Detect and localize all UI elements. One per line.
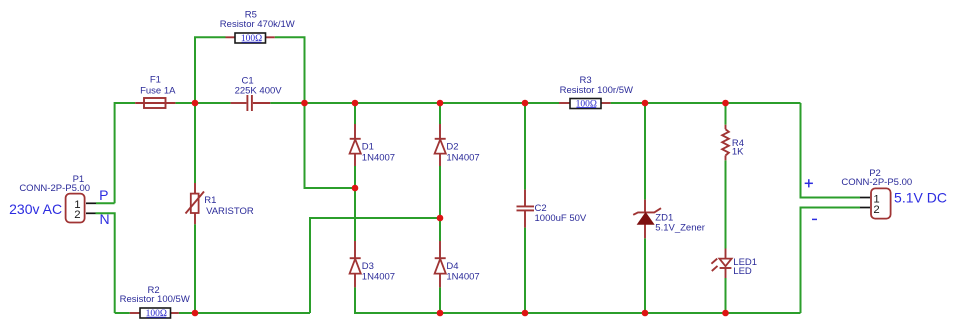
LED LED1 [711,249,757,279]
connector P1 [19,174,96,222]
svg-text:D1: D1 [362,141,374,152]
junction node C2 top at top rail [522,100,529,107]
junction node D2 cathode at top rail [437,100,444,107]
junction node C2 bottom at bottom rail [522,310,529,317]
wire: bottom-left rail (N side through R2 to bridge AC2 riser) [115,312,310,314]
diode D4 [435,241,480,287]
wire: bridge AC2 riser and horizontal to D2/D4 midpoint [310,218,440,313]
wire: R4/LED column [725,103,727,313]
junction node at fuse output / R5 / C1 / varistor [192,100,199,107]
junction node R4 top at top rail [722,100,729,107]
fuse F1 [135,74,176,108]
junction node LED bottom at bottom rail [722,310,729,317]
connector P2 [841,168,912,218]
node label - [812,218,817,220]
svg-text:N: N [99,211,109,227]
wire: D1/D3 bridge left column [355,103,440,313]
wire: C2 column [524,103,526,313]
svg-text:2: 2 [74,209,80,221]
wire: bottom-right DC negative rail [440,312,801,314]
wire: top rail from P1 P-side corner to P2 corner [115,103,801,203]
diode D2 [435,124,480,166]
svg-text:1N4007: 1N4007 [446,272,479,283]
junction node ZD1 top at top rail [642,100,649,107]
svg-text:Resistor 100/5W: Resistor 100/5W [120,294,190,305]
svg-text:LED: LED [733,266,752,277]
resistor R3 [559,75,633,110]
svg-text:5.1V DC: 5.1V DC [894,189,947,205]
svg-text:R1: R1 [204,195,216,206]
diode D3 [350,241,395,287]
svg-text:CONN-2P-P5.00: CONN-2P-P5.00 [841,177,912,188]
resistor R2 [120,285,190,319]
wire: P1 pin1 to corner [96,202,115,204]
svg-text:2: 2 [873,204,879,216]
wire: C1 node down to D1/D3 midpoint [305,103,356,188]
junction node ZD1 bottom at bottom rail [642,310,649,317]
node label + [805,179,813,187]
wire: P2 pin1 from top rail [801,103,861,198]
svg-text:Fuse 1A: Fuse 1A [140,85,176,96]
wire: ZD1 column [644,103,646,313]
wire: R5 parallel loop [195,37,305,103]
capacitor C2 (electrolytic) [517,190,587,228]
zener diode ZD1 [633,200,705,239]
svg-text:1K: 1K [732,147,744,158]
svg-text:1N4007: 1N4007 [446,153,479,164]
resistor R4 (zigzag) [722,125,744,161]
svg-text:1N4007: 1N4007 [362,272,395,283]
svg-text:5.1V_Zener: 5.1V_Zener [655,223,705,234]
svg-text:Resistor 100r/5W: Resistor 100r/5W [560,85,633,96]
varistor R1 [186,183,254,224]
svg-text:230v AC: 230v AC [9,201,62,217]
wire: P2 pin2 down to bottom rail [801,208,861,314]
wire: P1 pin2 down to bottom-left rail [96,213,115,313]
capacitor C1 [231,76,283,111]
svg-text:1000uF 50V: 1000uF 50V [535,213,587,224]
junction node bridge AC1 midpoint [352,185,359,192]
junction node bridge AC2 midpoint [437,215,444,222]
svg-text:1N4007: 1N4007 [362,153,395,164]
svg-text:Resistor 470k/1W: Resistor 470k/1W [220,19,295,30]
svg-text:F1: F1 [150,74,161,85]
wire: varistor column [194,103,196,313]
svg-text:225K 400V: 225K 400V [235,86,283,97]
svg-text:P: P [99,187,108,203]
resistor R5 [220,10,295,45]
svg-text:CONN-2P-P5.00: CONN-2P-P5.00 [19,183,90,194]
diode D1 [350,124,395,166]
svg-text:VARISTOR: VARISTOR [206,206,254,217]
junction node varistor bottom at bottom rail [192,310,199,317]
svg-text:D4: D4 [446,261,458,272]
junction node D4 anode at bottom rail [437,310,444,317]
svg-text:D2: D2 [446,141,458,152]
wire: D2/D4 bridge right column [439,103,441,313]
svg-text:D3: D3 [362,261,374,272]
junction node D1 cathode at top rail [352,100,359,107]
junction node at C1 output / R5 right [301,100,308,107]
